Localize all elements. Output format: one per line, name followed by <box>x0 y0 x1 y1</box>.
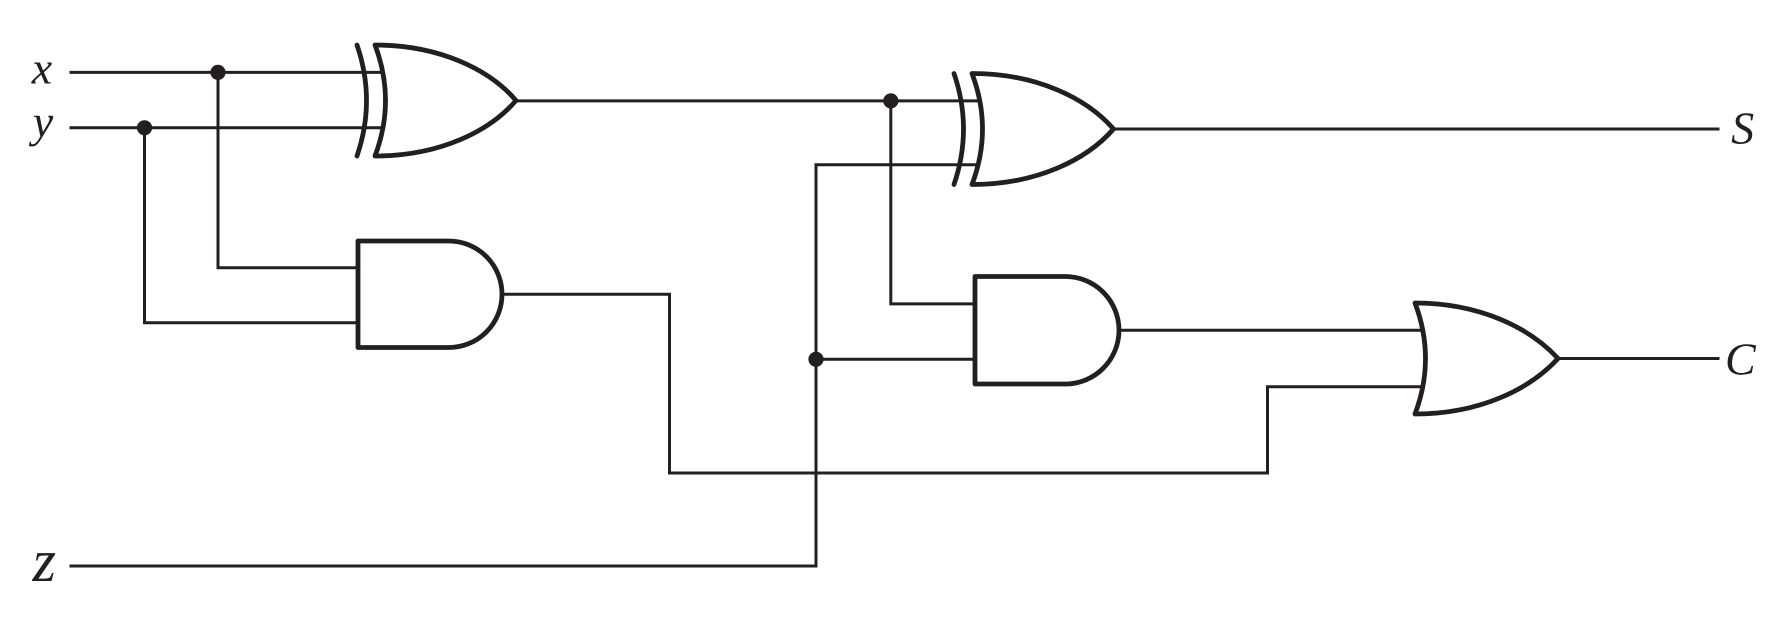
wire z up to XOR2 bottom input <box>816 165 988 566</box>
node E junction dot on z riser <box>808 352 823 367</box>
xor gate U3 ((x XOR y) XOR z) body <box>972 74 1114 185</box>
wire branch from node B to AND2 top input <box>891 101 988 304</box>
node D junction dot on XOR1 output wire <box>883 93 898 108</box>
wire AND2 output to OR top input <box>1119 329 1432 332</box>
svg-text:z: z <box>32 528 56 594</box>
wire input z <box>71 565 816 568</box>
node B junction dot on y wire <box>137 120 152 135</box>
svg-text:y: y <box>29 96 54 147</box>
wire AND1 output routed to OR bottom input <box>502 294 1432 473</box>
wire input y <box>71 126 390 129</box>
xor gate U3 input-side double arc <box>954 74 964 185</box>
and gate U2 (xy) body <box>358 241 502 348</box>
and gate U4 (z(x XOR y)) body <box>975 277 1119 385</box>
node A junction dot on x wire <box>210 65 225 80</box>
svg-text:x: x <box>31 43 53 94</box>
wire branch from node C to AND2 bottom input <box>816 358 988 361</box>
svg-text:C: C <box>1725 334 1757 385</box>
wire x branch to AND1 top input <box>218 72 370 267</box>
wire XOR1 output to XOR2 top input <box>516 99 988 102</box>
xor gate U1 (x XOR y) body <box>375 45 516 156</box>
wire y branch to AND1 bottom input <box>145 128 371 323</box>
or gate U5 (carry) body <box>1415 303 1558 414</box>
wire input x <box>71 71 390 74</box>
xor gate U1 input-side double arc <box>357 45 367 156</box>
wire output C <box>1558 357 1718 360</box>
wire output S <box>1114 128 1719 131</box>
svg-text:S: S <box>1731 103 1754 154</box>
